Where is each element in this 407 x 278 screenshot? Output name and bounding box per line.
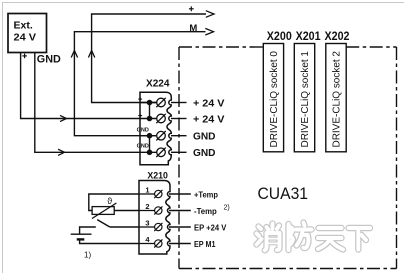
- temperature sensor circuit: [89, 194, 139, 219]
- svg-text:X210: X210: [147, 171, 168, 182]
- svg-text:X202: X202: [325, 29, 350, 43]
- svg-text:+ 24 V: + 24 V: [193, 98, 225, 109]
- svg-text:GND: GND: [137, 127, 149, 133]
- wire battery to pin4: [80, 239, 139, 243]
- svg-text:EP M1: EP M1: [194, 240, 216, 249]
- connector X201 DRIVE-CLiQ socket 1: [294, 44, 314, 152]
- wire switch to battery: [80, 227, 96, 234]
- arrow right on + bus: [206, 11, 214, 18]
- jumper 1-2: [149, 103, 151, 119]
- svg-text:1: 1: [145, 186, 149, 195]
- svg-text:X224: X224: [146, 79, 170, 90]
- thermistor diagonal: [92, 203, 116, 219]
- battery short plate: [77, 238, 85, 240]
- wire pin1: [140, 102, 157, 104]
- junction dots X224: [147, 100, 153, 155]
- svg-text:Ext.: Ext.: [14, 20, 33, 32]
- svg-text:CUA31: CUA31: [258, 185, 309, 203]
- CUA31 module boundary (dash-dot): [179, 47, 397, 269]
- jumper 3-4: [149, 136, 151, 153]
- svg-text:+Temp: +Temp: [194, 190, 218, 199]
- connector X200 DRIVE-CLiQ socket 0: [263, 44, 283, 152]
- svg-text:24 V: 24 V: [14, 32, 37, 44]
- arrow up on M feeder: [71, 51, 77, 58]
- wire sensor to pin2: [114, 210, 139, 212]
- arrow right on Ext GND wire: [58, 149, 65, 155]
- svg-text:GND: GND: [193, 132, 216, 143]
- X210 labels: [147, 171, 168, 182]
- svg-text:2: 2: [145, 202, 149, 211]
- arrow right on M bus: [205, 28, 213, 35]
- EP switch + supply circuit: [71, 220, 139, 244]
- svg-text:X201: X201: [296, 29, 321, 43]
- connector X224: [140, 92, 171, 165]
- svg-text:M: M: [189, 23, 197, 34]
- watermark: [257, 223, 371, 251]
- Ext. 24V source box: [8, 14, 47, 53]
- labels top-left: [14, 20, 198, 66]
- svg-text:3: 3: [145, 219, 149, 228]
- screw terminals X224: [156, 98, 165, 157]
- node + label mark (top): [189, 6, 194, 11]
- connector X202 DRIVE-CLiQ socket 2: [326, 44, 346, 152]
- X224 inner pin marks: [138, 97, 142, 117]
- wire pin3 to switch: [110, 226, 139, 228]
- pin stubs X224: [171, 103, 187, 153]
- X224 internal wiring: [140, 103, 157, 153]
- wire + from Ext to X224 pin +: [21, 53, 157, 119]
- arrow right on Ext + wire: [60, 115, 67, 121]
- X224 labels: [146, 79, 225, 160]
- svg-text:DRIVE-CLiQ socket 0: DRIVE-CLiQ socket 0: [269, 51, 280, 148]
- arrow up on + feeder: [88, 51, 94, 58]
- wire pin1 to sensor: [89, 194, 139, 211]
- svg-text:GND: GND: [37, 54, 61, 66]
- svg-text:GND: GND: [193, 148, 216, 159]
- svg-text:GND: GND: [137, 144, 149, 150]
- svg-text:DRIVE-CLiQ socket 1: DRIVE-CLiQ socket 1: [300, 51, 311, 148]
- svg-text:2): 2): [224, 205, 230, 212]
- svg-text:1): 1): [84, 251, 91, 260]
- switch blade: [97, 220, 110, 227]
- svg-text:EP +24 V: EP +24 V: [194, 223, 227, 232]
- pin stubs X210: [169, 194, 191, 244]
- wire P24 bus out (top): [92, 14, 206, 103]
- thermistor body: [92, 207, 114, 215]
- svg-text:DRIVE-CLiQ socket 2: DRIVE-CLiQ socket 2: [332, 51, 343, 148]
- screw terminals X210: [154, 190, 162, 248]
- svg-text:-Temp: -Temp: [194, 207, 217, 216]
- svg-text:X200: X200: [267, 29, 292, 43]
- node + polarity mark: [22, 54, 27, 59]
- wire pin3: [140, 135, 157, 137]
- X210 pin wires: [139, 194, 155, 244]
- battery long plate: [71, 233, 92, 235]
- wire M bus out: [74, 32, 205, 136]
- svg-text:ϑ: ϑ: [107, 196, 112, 206]
- wire GND from Ext to X224 GND: [35, 53, 157, 153]
- svg-text:+ 24 V: + 24 V: [193, 114, 225, 125]
- connector X210: [139, 181, 170, 255]
